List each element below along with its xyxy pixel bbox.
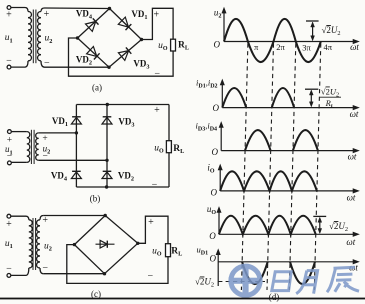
svg-text:4π: 4π (324, 42, 333, 52)
left rail (b) (75, 105, 77, 188)
wire secondary top lead (b) (39, 132, 77, 134)
svg-text:+: + (44, 9, 50, 20)
voltage curve uD1 reverse (242, 262, 268, 284)
svg-text:3π: 3π (302, 42, 311, 52)
svg-text:−: − (154, 69, 160, 80)
svg-text:O: O (212, 147, 219, 157)
svg-text:ωt: ωt (348, 152, 357, 162)
svg-text:(a): (a) (92, 83, 102, 93)
wire left node to - output rail (a) (69, 38, 174, 76)
svg-text:O: O (211, 187, 218, 197)
svg-text:−: − (6, 264, 12, 275)
dashed guide line at 2pi (267, 44, 274, 291)
wire secondary bottom lead (b) (39, 159, 107, 161)
transformer T1 secondary winding (41, 8, 45, 12)
current curve iD1 iD2 (222, 88, 246, 108)
svg-text:(d): (d) (269, 292, 280, 302)
amplitude arrow row2 (305, 88, 318, 90)
top rail (b) (76, 104, 169, 106)
waveform row2 axes (iD1,iD2) (221, 83, 223, 108)
node right (c) (136, 242, 139, 245)
svg-text:O: O (214, 40, 221, 50)
svg-text:+: + (42, 134, 47, 144)
waveform row5 axes (uO) (218, 211, 220, 235)
voltage curve uO full-wave (219, 216, 316, 235)
svg-text:O: O (210, 253, 217, 263)
svg-text:(c): (c) (91, 289, 101, 299)
diode VD4 (b) (71, 172, 81, 179)
diode VD1 (b) (71, 117, 81, 124)
diode VD2 (b) (102, 172, 112, 179)
input terminal top (a) (7, 6, 11, 10)
node bottom (a) (107, 66, 110, 69)
svg-text:−: − (152, 180, 158, 191)
waveform row3 axes (iD3,iD4) (220, 126, 222, 151)
junction dot top rail (b) (106, 103, 109, 106)
transformer T1 (circuit a) primary winding (11, 8, 28, 12)
waveform row6 axes (uD1) (217, 253, 219, 286)
diode VD4 (a) (86, 22, 96, 32)
transformer T2 (circuit b) primary winding (11, 131, 26, 133)
watermark logo cross horizontal bar (229, 278, 263, 284)
bottom rail (b) (76, 186, 169, 188)
node bottom (c) (103, 272, 106, 275)
svg-text:ωt: ωt (350, 109, 359, 119)
svg-text:+: + (154, 105, 160, 116)
svg-text:O: O (209, 231, 216, 241)
input terminal top (b) (7, 130, 11, 134)
transformer T2 secondary winding (36, 133, 39, 160)
watermark character RI (272, 272, 291, 291)
diode VD3 (a) (118, 51, 128, 61)
resistor RL (a) (171, 39, 176, 51)
junction dot left rail (b) (75, 131, 78, 134)
node left (c) (73, 243, 76, 246)
resistor RL (c) (166, 244, 171, 257)
junction dot bottom rail (b) (105, 185, 108, 188)
svg-text:−: − (147, 271, 153, 282)
svg-text:ωt: ωt (347, 193, 356, 203)
svg-text:−: − (7, 152, 12, 162)
waveform row4 axes (iO) (219, 168, 221, 191)
watermark logo ring (231, 266, 260, 295)
dashed guide line at 3pi (289, 44, 296, 291)
dashed guide line at 4pi (314, 44, 321, 291)
svg-text:−: − (42, 263, 48, 274)
svg-text:ωt: ωt (346, 237, 355, 247)
bridge diamond (c) (74, 216, 105, 245)
waveform row1 axes (u2) (223, 11, 225, 41)
svg-text:ωt: ωt (350, 42, 359, 52)
junction dot center rail (b) (105, 159, 108, 162)
center rail (b) (106, 105, 108, 188)
transformer T3 core (32, 218, 34, 270)
node top (a) (108, 7, 111, 10)
diode VD1 (a) (118, 17, 128, 27)
watermark character CHEN (327, 267, 359, 292)
diode VD2 (a) (87, 47, 97, 57)
node top (c) (104, 214, 107, 217)
node right (a) (140, 38, 143, 41)
svg-text:+: + (42, 215, 48, 226)
input terminal bottom (a) (7, 65, 11, 69)
internal diode symbol (c) (96, 243, 115, 245)
transformer T1 core (32, 10, 34, 64)
svg-text:+: + (148, 217, 154, 228)
wire secondary top to bridge top node (a) (45, 7, 110, 10)
input terminal top (c) (7, 214, 11, 218)
resistor RL (b) (166, 141, 171, 153)
right rail with resistor (b) (168, 105, 170, 141)
wire secondary bottom to bridge bottom node (a) (45, 66, 110, 68)
node left (a) (76, 36, 79, 39)
bottom border line (0, 298, 365, 300)
transformer T2 core (30, 130, 32, 164)
current curve iO full-wave (220, 171, 317, 191)
wire right node to + output (c) (138, 216, 168, 244)
svg-text:(b): (b) (90, 194, 101, 204)
svg-text:+: + (7, 136, 12, 146)
diode VD3 (b) (102, 117, 112, 124)
svg-text:2π: 2π (276, 42, 285, 52)
wire left node to - output (c) (67, 245, 168, 284)
amplitude arrow row5 (313, 215, 326, 217)
svg-text:O: O (213, 103, 220, 113)
transformer T3 (circuit c) primary winding (11, 216, 29, 220)
wire secondary top to bridge top node (c) (43, 215, 105, 217)
wire right node to + output rail (a) (142, 8, 174, 39)
svg-text:−: − (6, 56, 12, 67)
svg-text:+: + (6, 10, 12, 21)
input terminal bottom (c) (7, 274, 11, 278)
dashed level line -sqrt2U2 (218, 281, 265, 283)
svg-text:π: π (254, 42, 259, 52)
amplitude arrow row1 (306, 20, 319, 22)
sine curve u2 (224, 19, 321, 62)
svg-text:+: + (6, 219, 12, 230)
input terminal bottom (b) (7, 161, 11, 165)
bridge diamond wires (a) (78, 9, 110, 39)
watermark logo cross vertical bar (243, 264, 249, 298)
current curve iD3 iD4 (245, 130, 271, 151)
svg-text:+: + (153, 9, 159, 20)
transformer T3 secondary winding (40, 216, 43, 220)
wire secondary bottom to bridge bottom node (c) (43, 273, 104, 275)
dashed guide line at pi (241, 44, 248, 291)
watermark character YUE (296, 271, 317, 294)
